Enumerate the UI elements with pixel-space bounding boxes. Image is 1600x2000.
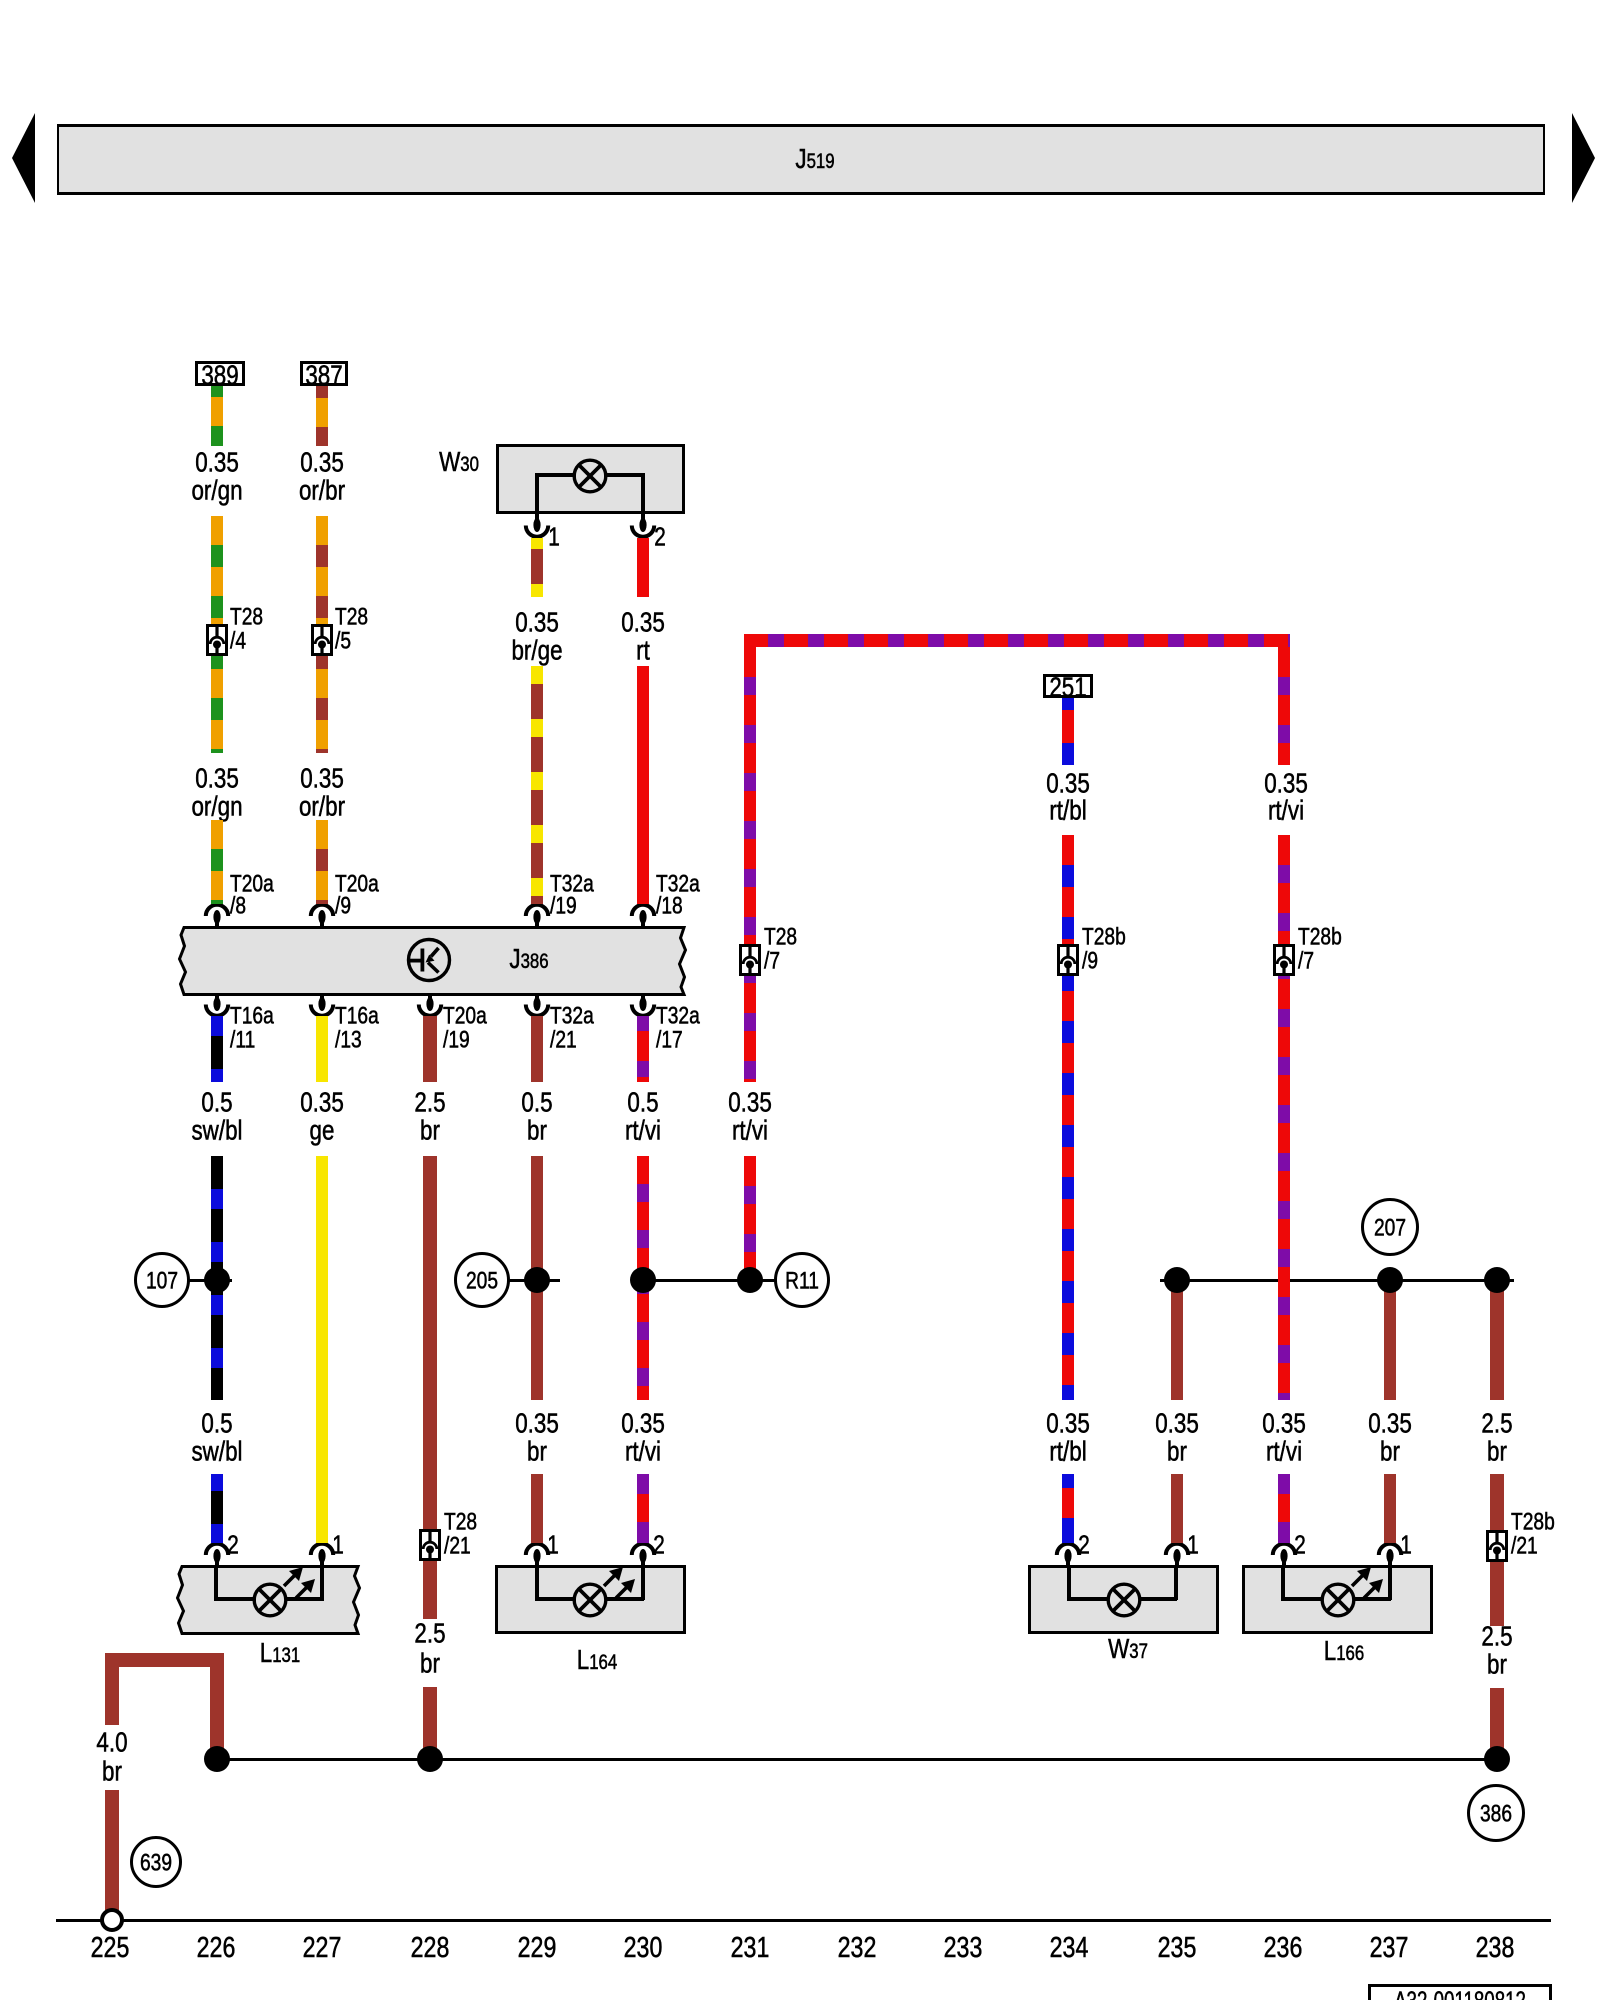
L166 bulb symbol (1319, 1581, 1357, 1619)
lamp L166 (1242, 1565, 1433, 1634)
label 0.35 br mid (515, 1408, 559, 1437)
W37 bulb symbol (1105, 1581, 1143, 1619)
terminal box 251 (1043, 674, 1093, 698)
junction dot col K (1484, 1267, 1510, 1293)
J386 bottom pin T32a/21 (519, 993, 555, 1019)
label 4.0 br (96, 1727, 127, 1756)
lamp L164 (495, 1565, 686, 1634)
wire rt/bl segment 3 (1062, 1474, 1074, 1543)
label 0.35 rt (621, 607, 665, 636)
connector T28/5 (311, 624, 333, 656)
control unit J519 bus bar (57, 124, 1545, 195)
pin T20a/8 (199, 904, 235, 930)
junction dot node 107 (204, 1267, 230, 1293)
node 386 (1467, 1784, 1525, 1842)
wire rt segment 1 (637, 538, 649, 597)
pin L164/2 (625, 1543, 661, 1569)
pin L131/2 (199, 1543, 235, 1569)
wire or/br segment 2 (316, 516, 328, 753)
L131 bulb symbol (251, 1581, 289, 1619)
label 0.5 sw/bl upper (201, 1087, 232, 1116)
node 107 (134, 1252, 190, 1308)
W30 bulb symbol (571, 457, 609, 495)
wire br 2.5 col K mid (1490, 1474, 1504, 1532)
wire br col H lower (1171, 1474, 1183, 1543)
pin T32a/18 (625, 904, 661, 930)
ground terminal 639 (100, 1908, 124, 1932)
label 0.35 rt/vi mid (621, 1408, 665, 1437)
label 0.35 rt/bl lower (1046, 1408, 1090, 1437)
wire br 4.0 top bar (105, 1653, 224, 1667)
wire br/ge segment 1 (531, 538, 543, 597)
J386 bottom pin T16a/11 (199, 993, 235, 1019)
track numbers (91, 1933, 130, 1963)
wire rt/vi segment 3 (637, 1474, 649, 1543)
wire ge segment 2 (316, 1156, 328, 1543)
wire rt/vi segment 1 (637, 1016, 649, 1082)
L131 internal wiring (214, 1567, 218, 1600)
wire sw/bl segment 1 (211, 1016, 223, 1082)
lamp L131 (170, 1562, 370, 1638)
label 0.35 or/br lower (300, 763, 344, 792)
wire br 2.5 segment 3 (423, 1561, 437, 1619)
connector T28/21 (419, 1529, 441, 1561)
label 0.5 br (521, 1087, 552, 1116)
L164 LED arrows (602, 1560, 642, 1600)
pin T32a/19 (519, 904, 555, 930)
wire br/ge segment 2 (531, 666, 543, 904)
wire br segment 1 (531, 1016, 543, 1082)
connector T28b/21 (1486, 1530, 1508, 1562)
L166 internal wiring (1281, 1567, 1285, 1600)
wire br segment 3 (531, 1474, 543, 1543)
pin L164/1 (519, 1543, 555, 1569)
junction dot ground bus col C (417, 1746, 443, 1772)
wire or/gn segment 2 (211, 516, 223, 753)
connector T28/7 (739, 944, 761, 976)
terminal box 387 (300, 361, 348, 386)
wire br 4.0 right leg (210, 1653, 224, 1759)
wire br 2.5 segment 1 (423, 1016, 437, 1082)
wire rt/vi riser right (1278, 835, 1290, 1400)
wire br 2.5 segment 4 (423, 1687, 437, 1759)
pin L131/1 (304, 1543, 340, 1569)
W30 pin 1 (519, 514, 555, 540)
W37 internal wiring (1067, 1567, 1071, 1600)
label 2.5 br col K lower (1481, 1621, 1512, 1650)
pin L166/1 (1372, 1543, 1408, 1569)
junction dot node 205 (524, 1267, 550, 1293)
node 205 (454, 1252, 510, 1308)
wire br 4.0 left leg (105, 1653, 119, 1725)
junction dot col H (1164, 1267, 1190, 1293)
connector arrow left (0, 0, 60, 220)
J386 bottom pin T32a/17 (625, 993, 661, 1019)
pin L166/2 (1266, 1543, 1302, 1569)
wire rt segment 2 (637, 666, 649, 904)
wire sw/bl segment 3 (211, 1474, 223, 1543)
J386 bottom pin T20a/19 (412, 993, 448, 1019)
wire br col J upper (1384, 1280, 1396, 1400)
label 2.5 br lower (414, 1618, 445, 1647)
label 0.5 rt/vi (627, 1087, 658, 1116)
node R11 junction line (643, 1279, 775, 1282)
wire br 2.5 col K upper (1490, 1280, 1504, 1400)
pin W37/1 (1159, 1543, 1195, 1569)
wire or/gn segment 3 (211, 820, 223, 904)
L164 internal wiring (535, 1567, 539, 1600)
node 639 (130, 1836, 182, 1888)
wire rt/vi col I lower (1278, 1474, 1290, 1543)
wire rt/vi segment 2 (637, 1156, 649, 1400)
wire br 2.5 segment 2 (423, 1156, 437, 1530)
wire or/br segment 1 (316, 386, 328, 446)
label 0.35 br/ge (515, 607, 559, 636)
wire sw/bl segment 2 (211, 1156, 223, 1400)
wire or/gn segment 1 (211, 386, 223, 446)
pin T20a/9 (304, 904, 340, 930)
junction line 207 (1160, 1279, 1514, 1282)
label 2.5 br col K upper (1481, 1408, 1512, 1437)
J386 K-bus symbol (405, 936, 453, 984)
node 207 (1361, 1198, 1419, 1256)
label 0.35 ge (300, 1087, 344, 1116)
node R11 (774, 1252, 830, 1308)
wire br col J lower (1384, 1474, 1396, 1543)
W30 internal wiring (535, 477, 539, 514)
label 0.35 rt/vi col I upper (1264, 768, 1308, 797)
J386 bottom pin T16a/13 (304, 993, 340, 1019)
W30 pin 2 (625, 514, 661, 540)
drawing number box A32-001180812 (1368, 1984, 1552, 2000)
wire rt/vi riser left (744, 647, 756, 1082)
connector arrow right (1560, 0, 1600, 220)
wire br col H upper (1171, 1280, 1183, 1400)
wire rt/vi riser right upper (1278, 647, 1290, 765)
label 0.35 rt/vi riser (728, 1087, 772, 1116)
label 0.35 rt/bl upper (1046, 768, 1090, 797)
wire ge segment 1 (316, 1016, 328, 1082)
lamp W37 (1028, 1565, 1219, 1634)
wire rt/vi riser left lower (744, 1156, 756, 1280)
label 0.35 or/gn lower (195, 763, 239, 792)
junction dot ground bus left (204, 1746, 230, 1772)
junction dot R11 left (630, 1267, 656, 1293)
label 0.35 br col J (1368, 1408, 1412, 1437)
wire rt/bl segment 1 (1062, 698, 1074, 765)
wire rt/vi horizontal run (744, 634, 1290, 647)
control unit J386 (172, 922, 696, 1000)
connector T28/4 (206, 624, 228, 656)
wire rt/bl segment 2 (1062, 835, 1074, 1400)
label 0.35 rt/vi col I (1262, 1408, 1306, 1437)
L131 LED arrows (282, 1560, 322, 1600)
connector T28b/7 (1273, 944, 1295, 976)
junction dot ground bus col K (1484, 1746, 1510, 1772)
L166 LED arrows (1350, 1560, 1390, 1600)
wire br segment 2 (531, 1156, 543, 1400)
terminal box 389 (195, 361, 245, 386)
label 0.35 br col H (1155, 1408, 1199, 1437)
pin W37/2 (1050, 1543, 1086, 1569)
label 0.35 or/br upper (300, 447, 344, 476)
ground bus (217, 1758, 1497, 1761)
track line (56, 1919, 1551, 1922)
wire or/br segment 3 (316, 820, 328, 904)
label 0.35 or/gn upper (195, 447, 239, 476)
lamp W30 (439, 447, 479, 476)
junction dot col J (1377, 1267, 1403, 1293)
junction dot R11 right (737, 1267, 763, 1293)
label 2.5 br upper (414, 1087, 445, 1116)
label 0.5 sw/bl lower (201, 1408, 232, 1437)
wire br 4.0 bottom (105, 1790, 119, 1910)
wire br 2.5 col K bottom (1490, 1688, 1504, 1759)
wire br 2.5 col K lower (1490, 1562, 1504, 1626)
connector T28b/9 (1057, 944, 1079, 976)
L164 bulb symbol (571, 1581, 609, 1619)
